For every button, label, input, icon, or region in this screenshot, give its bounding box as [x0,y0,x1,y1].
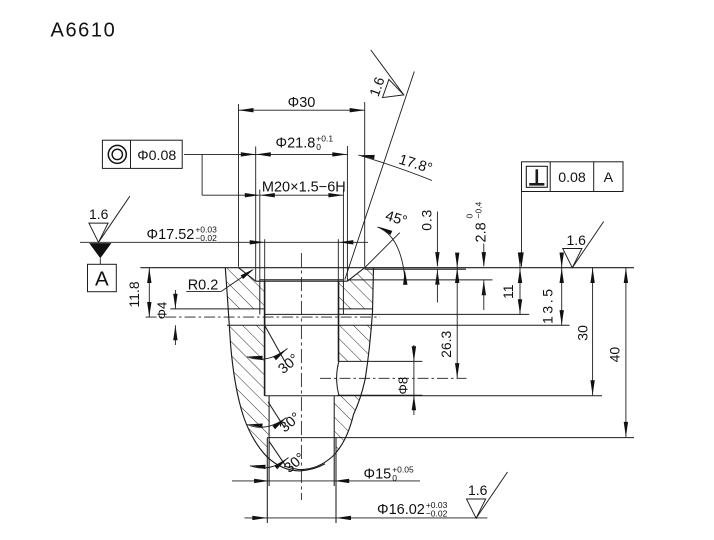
svg-text:Φ16.02: Φ16.02 [377,502,425,518]
svg-text:A: A [95,268,109,291]
svg-text:Φ21.8: Φ21.8 [276,136,316,152]
dim 30deg upper [247,349,302,378]
R0.2 leader and text [186,269,254,294]
countersink cone right [347,268,364,282]
thread minor bore wall right [338,281,340,396]
45deg indicator line [365,233,400,268]
svg-text:−0.02: −0.02 [195,233,217,243]
dim 40 [607,268,629,437]
dim phi15 text [364,464,414,483]
outer profile right edge [284,268,374,470]
dim phi21.8 text [276,133,334,152]
perpendicularity frame leader [519,192,523,268]
svg-text:M20×1.5−6H: M20×1.5−6H [262,179,346,195]
part cross-section hatching right [334,268,373,456]
concentricity frame [102,140,182,168]
part cross-section hatching left [225,268,269,457]
countersink cone left [239,268,256,282]
phi4 hole centerline [146,316,380,318]
dim 30deg middle [247,410,304,436]
dim phi8 [396,345,417,415]
dim phi17.52 line and outside arrows [80,240,368,244]
internal step line at 30 deep [265,395,603,397]
phi15 bore wall right [333,396,335,438]
perpendicularity frame [522,162,624,192]
dim M20 line and arrows [260,193,344,197]
svg-text:2.8: 2.8 [474,222,490,242]
0.3 offset line below face [365,268,466,270]
dim 13.5 [540,253,564,326]
surface roughness 1.6 bottom [467,472,508,518]
phi15 extension left [268,438,270,486]
dim phi21.8 line and arrows [252,152,348,156]
datum A filled triangle [89,243,111,264]
dim phi15 line and arrows [232,479,420,483]
taper construction line 17.8deg [345,72,415,280]
part number label A6610 [51,20,117,42]
dim phi21.8 extension lines [256,146,348,281]
dim 26.3 [438,253,459,379]
svg-text:13.5: 13.5 [540,286,556,324]
30 deg cone edge 2 [268,402,285,428]
dim 45deg text [383,208,409,230]
dim phi30 extension lines [239,102,365,267]
dim phi16.02 text [377,500,448,519]
concentricity frame leader branch to M20 [202,154,260,197]
svg-text:Φ30: Φ30 [288,95,316,111]
surface roughness 1.6 right [563,222,604,268]
phi16.02 wall and extension left [266,438,268,523]
svg-text:−0.02: −0.02 [426,508,448,518]
phi8 hole far side arc [337,362,339,395]
dim 11 [500,253,522,315]
svg-text:A: A [604,170,614,186]
dim phi4 [155,290,178,345]
svg-text:Φ15: Φ15 [364,467,392,483]
surface roughness 1.6 left [89,196,130,242]
svg-text:Φ17.52: Φ17.52 [147,227,195,243]
phi16.02 wall and extension right [335,438,337,523]
dim 17.8deg text [397,152,434,177]
outer profile left edge [225,268,325,471]
svg-text:0: 0 [392,473,397,483]
dim 30 [574,268,595,395]
phi8 hole centerline [320,377,467,379]
dim phi16.02 line and arrows [245,516,488,520]
thread minor bore wall left [264,281,266,396]
svg-text:1.6: 1.6 [89,206,109,222]
vertical centerline [300,253,302,500]
svg-text:0.3: 0.3 [418,209,434,231]
svg-text:Φ4: Φ4 [155,302,170,320]
dim phi30 text [288,95,316,111]
dim 17.8deg arc and arrow [358,155,432,181]
svg-text:Φ0.08: Φ0.08 [137,148,176,164]
svg-text:A6610: A6610 [51,20,117,42]
phi4 cross hole top edge [170,308,372,310]
dim 2.8 [482,244,486,311]
phi8 cross hole top edge [339,360,423,362]
dim phi17.52 extension lines [265,239,339,281]
dim phi30 line and arrows [239,108,365,112]
dim 30deg lower [250,450,308,476]
svg-text:26.3: 26.3 [438,330,454,357]
svg-text:−0.4: −0.4 [474,201,484,218]
thread end line (11 deep) [265,313,530,315]
svg-text:1.6: 1.6 [567,232,587,248]
dim 0.3 [418,209,439,303]
dim M20 text [262,179,346,195]
surface roughness 1.6 on slant [357,50,415,105]
svg-text:Φ8: Φ8 [396,377,411,395]
phi8 cross hole bottom edge [338,394,423,396]
30 deg cone edge 1 [265,325,285,361]
datum A box [88,264,117,291]
phi15 extension right [333,438,335,486]
dim M20 extension lines [260,190,344,282]
svg-text:11: 11 [500,284,516,299]
dim 45deg arc and arrows [377,227,407,285]
top face line of part [140,267,634,269]
step line at 40 (bottom of phi15) [267,437,634,439]
svg-text:40: 40 [607,347,623,363]
thread major line right [342,281,344,314]
dim phi17.52 text [147,225,218,244]
extension line for 2.8 depth [347,279,492,281]
dim 2.8 text [465,201,490,242]
svg-text:11.8: 11.8 [126,281,142,307]
dim 11.8 [126,268,152,317]
phi15 bore wall left [268,396,270,438]
svg-text:0: 0 [316,142,321,152]
concentricity frame leader to phi21.8 [184,152,256,156]
step line at 13.5 deep with phi4 hole bottom [227,324,570,326]
30 deg cone edge 3 [269,442,285,466]
thread major line left [259,281,261,314]
svg-text:30: 30 [574,325,590,341]
svg-text:0.08: 0.08 [558,170,586,186]
counterbore bottom second line [260,279,343,281]
hole band cutouts [225,309,374,395]
svg-text:1.6: 1.6 [468,482,488,498]
counterbore bottom line [256,280,347,282]
